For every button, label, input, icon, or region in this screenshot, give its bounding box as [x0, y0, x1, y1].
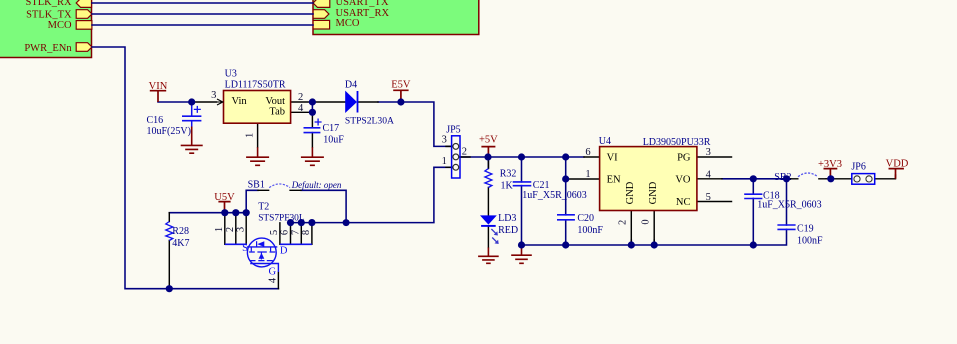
svg-text:R28: R28	[172, 226, 189, 237]
svg-text:1K: 1K	[501, 181, 514, 192]
svg-text:STLK_TX: STLK_TX	[26, 9, 72, 20]
svg-text:T2: T2	[258, 202, 269, 213]
svg-text:C16: C16	[147, 115, 164, 126]
svg-text:4: 4	[267, 277, 278, 283]
svg-text:+5V: +5V	[479, 135, 498, 146]
svg-text:VDD: VDD	[886, 159, 909, 170]
svg-text:4K7: 4K7	[172, 238, 189, 249]
svg-text:NC: NC	[676, 197, 691, 208]
svg-text:U4: U4	[599, 136, 611, 147]
svg-text:6: 6	[280, 230, 291, 235]
svg-text:S: S	[242, 243, 248, 254]
svg-text:2: 2	[225, 227, 236, 232]
svg-text:D: D	[280, 246, 288, 257]
svg-text:PWR_ENn: PWR_ENn	[24, 43, 72, 54]
svg-text:5: 5	[706, 192, 711, 203]
svg-text:1: 1	[585, 169, 590, 180]
svg-text:3: 3	[442, 134, 447, 145]
svg-text:10uF: 10uF	[323, 134, 344, 145]
svg-text:4: 4	[706, 169, 712, 180]
svg-text:100nF: 100nF	[797, 236, 823, 247]
svg-text:1: 1	[214, 227, 225, 232]
svg-text:C17: C17	[323, 123, 340, 134]
svg-text:GND: GND	[648, 181, 659, 204]
svg-text:SB1: SB1	[248, 180, 265, 191]
svg-text:SB2: SB2	[774, 172, 791, 183]
svg-text:Vin: Vin	[232, 96, 248, 107]
svg-text:2: 2	[618, 220, 629, 225]
svg-text:10uF(25V): 10uF(25V)	[147, 126, 191, 137]
svg-text:Default: open: Default: open	[291, 180, 342, 190]
svg-text:3: 3	[706, 147, 711, 158]
svg-text:4: 4	[298, 103, 304, 114]
svg-text:R32: R32	[500, 169, 517, 180]
svg-text:VIN: VIN	[149, 81, 168, 92]
svg-text:VI: VI	[607, 153, 619, 164]
svg-text:1: 1	[442, 156, 447, 167]
svg-text:MCO: MCO	[48, 20, 72, 31]
svg-text:USART_TX: USART_TX	[336, 0, 389, 8]
svg-text:STLK_RX: STLK_RX	[26, 0, 73, 8]
svg-text:JP6: JP6	[851, 162, 865, 173]
svg-text:Tab: Tab	[269, 106, 285, 117]
svg-text:D4: D4	[345, 79, 357, 90]
svg-text:EN: EN	[607, 175, 621, 186]
svg-text:E5V: E5V	[391, 79, 411, 90]
svg-text:JP5: JP5	[446, 124, 460, 135]
svg-text:3: 3	[211, 90, 216, 101]
svg-text:1: 1	[244, 133, 255, 138]
svg-text:5: 5	[269, 230, 280, 235]
svg-text:100nF: 100nF	[577, 225, 603, 236]
svg-text:7: 7	[290, 230, 301, 235]
svg-text:PG: PG	[677, 153, 691, 164]
svg-text:0: 0	[641, 219, 652, 224]
svg-text:1uF_X5R_0603: 1uF_X5R_0603	[522, 190, 586, 201]
svg-text:6: 6	[585, 147, 590, 158]
svg-text:VO: VO	[675, 175, 691, 186]
svg-text:Vout: Vout	[265, 96, 285, 107]
svg-text:2: 2	[298, 92, 303, 103]
svg-text:LD3: LD3	[498, 213, 516, 224]
svg-text:2: 2	[462, 146, 467, 157]
svg-text:G: G	[269, 266, 277, 277]
svg-text:STS7PF30L: STS7PF30L	[258, 214, 305, 224]
svg-text:8: 8	[301, 230, 312, 235]
svg-text:U3: U3	[225, 69, 237, 80]
svg-text:MCO: MCO	[336, 18, 360, 29]
svg-text:+3V3: +3V3	[818, 159, 842, 170]
svg-text:RED: RED	[498, 225, 518, 236]
svg-text:C19: C19	[797, 224, 814, 235]
svg-text:STPS2L30A: STPS2L30A	[345, 115, 394, 126]
svg-text:1uF_X5R_0603: 1uF_X5R_0603	[757, 200, 821, 211]
svg-text:GND: GND	[625, 181, 636, 204]
svg-text:LD1117S50TR: LD1117S50TR	[225, 79, 286, 90]
svg-text:U5V: U5V	[214, 192, 235, 203]
svg-text:3: 3	[235, 227, 246, 232]
svg-text:C20: C20	[577, 213, 594, 224]
svg-text:LD39050PU33R: LD39050PU33R	[643, 137, 711, 148]
